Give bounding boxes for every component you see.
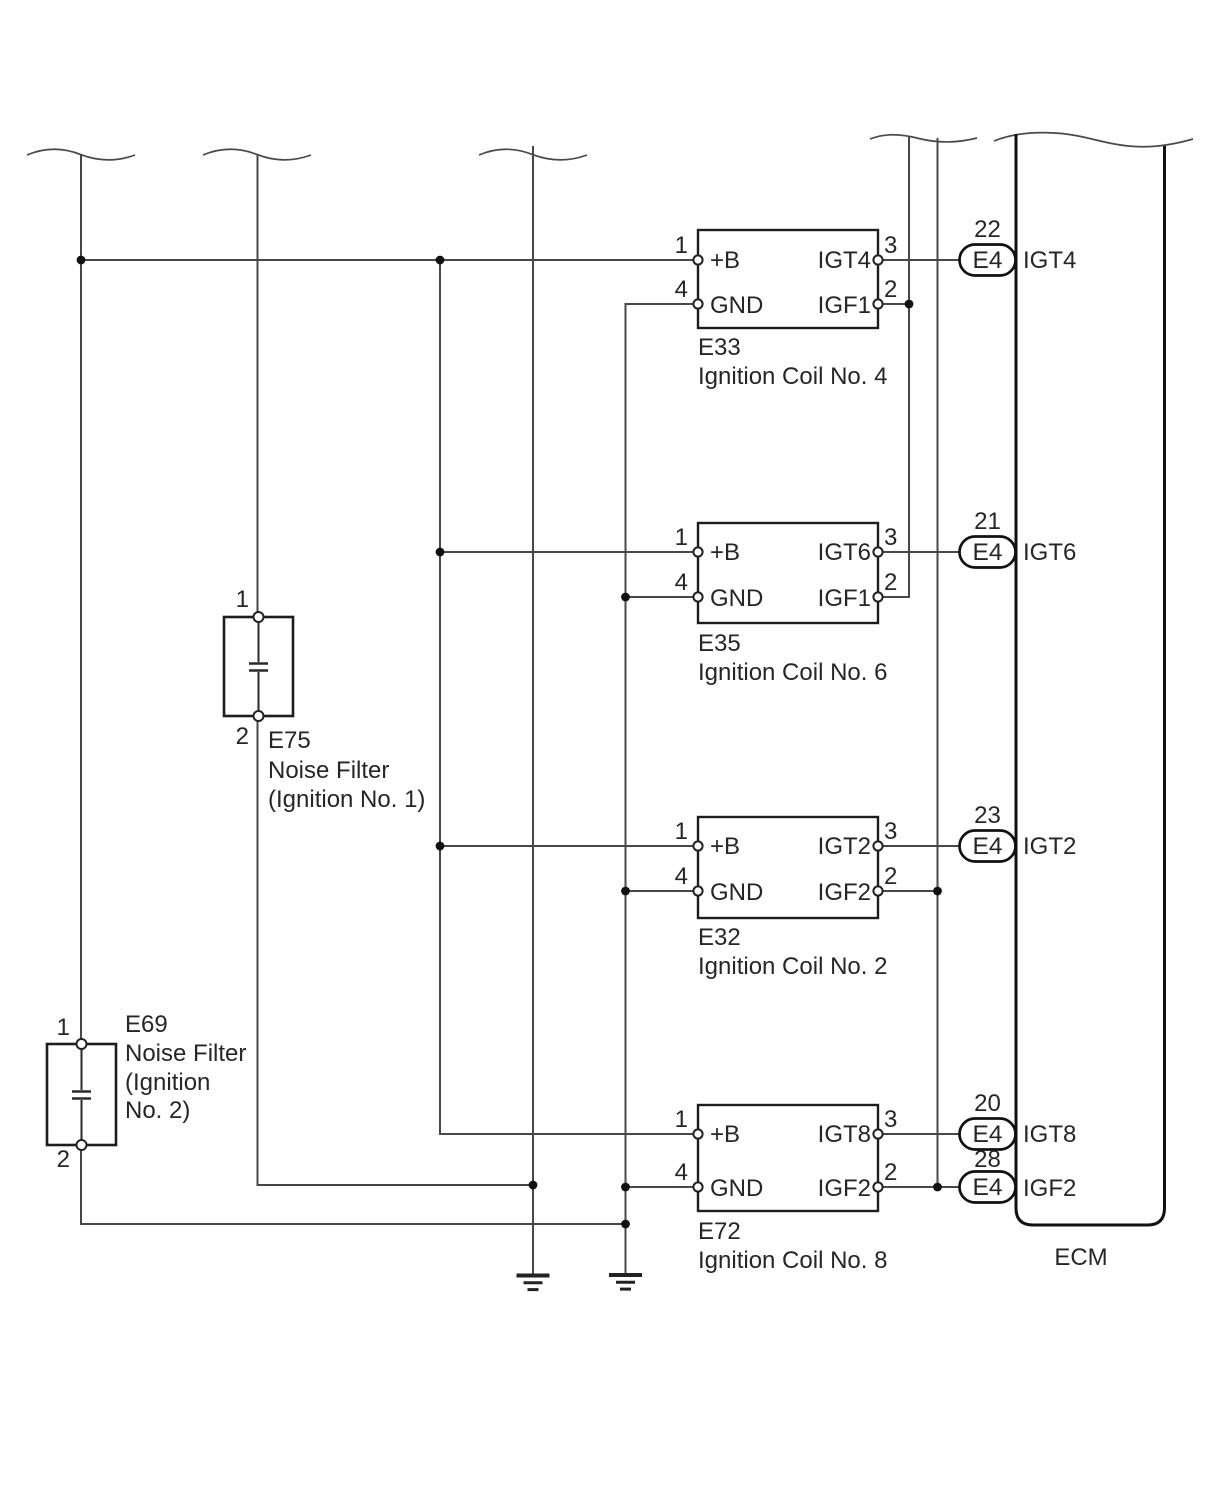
junction node: +B branch to E35: [436, 548, 445, 557]
pin circle E75 pin2: [254, 711, 264, 721]
ECM box outline: [1016, 134, 1165, 1225]
svg-text:4: 4: [675, 1159, 688, 1186]
svg-text:23: 23: [974, 802, 1001, 829]
svg-text:1: 1: [236, 586, 249, 613]
svg-text:3: 3: [884, 818, 897, 845]
pin circle E72 pin2: [873, 1182, 882, 1191]
wire: +B bus horizontal to E33 pin 1: [81, 259, 694, 261]
svg-text:Ignition Coil No. 4: Ignition Coil No. 4: [698, 363, 887, 390]
svg-text:IGT6: IGT6: [1023, 539, 1076, 566]
svg-text:GND: GND: [710, 585, 763, 612]
svg-text:E75: E75: [268, 727, 311, 754]
ground symbol G1: [517, 1276, 550, 1290]
svg-text:1: 1: [675, 818, 688, 845]
svg-text:+B: +B: [710, 539, 740, 566]
pin circle E32 pin2: [873, 886, 882, 895]
wire: E72 IGF2 pin 2 to connector E4-28: [882, 1186, 960, 1188]
svg-text:E32: E32: [698, 924, 741, 951]
svg-text:No. 2): No. 2): [125, 1097, 190, 1124]
ignition coil E72 box: [698, 1105, 878, 1211]
svg-text:E4: E4: [973, 1121, 1003, 1148]
wire: GND branch to E72 pin 4: [626, 1186, 695, 1188]
pin circle E69 pin2: [77, 1140, 87, 1150]
wire: +B branch to E35 pin 1: [440, 551, 694, 553]
svg-text:IGF2: IGF2: [818, 879, 871, 906]
pin circle E33 pin3: [873, 255, 882, 264]
junction node: IGF1 bus at E33: [905, 300, 914, 309]
pin circle E32 pin4: [693, 886, 702, 895]
svg-text:IGT8: IGT8: [1023, 1121, 1076, 1148]
junction node: +B bus left end: [77, 256, 86, 265]
svg-text:Ignition Coil No. 8: Ignition Coil No. 8: [698, 1247, 887, 1274]
wire: E33 IGT4 pin 3 to connector E4-22: [882, 259, 960, 261]
wire break squiggle over node B+ feed left: [27, 149, 135, 160]
svg-text:E69: E69: [125, 1011, 168, 1038]
wire: GND branch to E32 pin 4: [626, 890, 695, 892]
svg-text:GND: GND: [710, 1175, 763, 1202]
noise filter E69 box: [47, 1044, 116, 1145]
pin circle E32 pin1: [693, 841, 702, 850]
svg-text:Ignition Coil No. 2: Ignition Coil No. 2: [698, 953, 887, 980]
ground symbol G2: [609, 1275, 642, 1289]
svg-text:4: 4: [675, 276, 688, 303]
pin circle E72 pin3: [873, 1129, 882, 1138]
pin circle E35 pin4: [693, 592, 702, 601]
wire: E33 IGF1 pin 2 to IGF1 bus: [882, 303, 909, 305]
pin circle E35 pin3: [873, 547, 882, 556]
svg-text:IGT6: IGT6: [818, 539, 871, 566]
junction node: GND bus at E72 row: [621, 1183, 630, 1192]
svg-text:E4: E4: [973, 1174, 1003, 1201]
connector oval E4-28: [960, 1172, 1016, 1203]
wire: E32 IGF2 pin 2 to IGF2 bus: [882, 890, 938, 892]
wire break squiggle over ground wire: [479, 149, 587, 160]
svg-text:IGT4: IGT4: [818, 247, 871, 274]
wire: E72 IGT8 pin 3 to connector E4-20: [882, 1133, 960, 1135]
svg-text:E4: E4: [973, 247, 1003, 274]
wire: E35 IGT6 pin 3 to connector E4-21: [882, 551, 960, 553]
svg-text:28: 28: [974, 1146, 1001, 1173]
svg-text:IGT4: IGT4: [1023, 247, 1076, 274]
svg-text:IGF1: IGF1: [818, 585, 871, 612]
svg-text:E33: E33: [698, 334, 741, 361]
svg-text:3: 3: [884, 1106, 897, 1133]
pin circle E33 pin2: [873, 299, 882, 308]
svg-text:Ignition Coil No. 6: Ignition Coil No. 6: [698, 659, 887, 686]
capacitor inside E69: [72, 1049, 91, 1140]
capacitor inside E75: [249, 622, 268, 711]
wire: E69 pin 2 down and right to GND bus: [81, 1149, 626, 1224]
wire: E75 pin 2 down and right to ground wire: [258, 720, 534, 1185]
svg-text:3: 3: [884, 232, 897, 259]
svg-text:IGF2: IGF2: [1023, 1175, 1076, 1202]
svg-text:+B: +B: [710, 1121, 740, 1148]
junction node: E75 line on ground wire: [529, 1181, 538, 1190]
svg-text:Noise Filter: Noise Filter: [268, 757, 389, 784]
svg-text:20: 20: [974, 1090, 1001, 1117]
svg-text:IGF1: IGF1: [818, 292, 871, 319]
svg-text:GND: GND: [710, 879, 763, 906]
wire break squiggle over IGF1/IGF2 wires: [870, 135, 977, 142]
pin circle E35 pin2: [873, 592, 882, 601]
wire: IGF2 vertical bus (break to E72 IGF2 row): [937, 138, 939, 1187]
svg-text:2: 2: [57, 1146, 70, 1173]
wire: ground wire vertical (break to ground): [532, 146, 534, 1274]
svg-text:Noise Filter: Noise Filter: [125, 1040, 246, 1067]
junction node: +B branch to E32: [436, 842, 445, 851]
ignition coil E33 box: [698, 230, 878, 328]
wire break squiggle over ECM box top: [994, 133, 1193, 147]
svg-text:2: 2: [884, 1159, 897, 1186]
svg-text:GND: GND: [710, 292, 763, 319]
svg-text:IGT2: IGT2: [818, 833, 871, 860]
connector oval E4-22: [960, 245, 1016, 276]
pin circle E33 pin1: [693, 255, 702, 264]
ignition coil E35 box: [698, 523, 878, 623]
svg-text:2: 2: [884, 276, 897, 303]
wire: IGF1 vertical bus (break to E35 pin 2): [882, 136, 909, 597]
svg-text:2: 2: [884, 863, 897, 890]
connector oval E4-20: [960, 1119, 1016, 1150]
svg-text:3: 3: [884, 524, 897, 551]
wire: +B branch vertical to E72 pin 1: [440, 260, 694, 1134]
pin circle E72 pin4: [693, 1182, 702, 1191]
junction node: GND bus at E69 row: [621, 1220, 630, 1229]
svg-text:1: 1: [675, 524, 688, 551]
wire: GND bus from E33 pin 4 down to ground: [626, 304, 695, 1273]
junction node: GND bus at E32: [621, 887, 630, 896]
noise filter E75 box: [224, 617, 293, 716]
wire: E75 feed vertical (break to E75 pin 1): [257, 154, 259, 613]
svg-text:E4: E4: [973, 539, 1003, 566]
pin circle E69 pin1: [77, 1039, 87, 1049]
svg-text:21: 21: [974, 508, 1001, 535]
junction node: GND bus at E35: [621, 593, 630, 602]
pin circle E33 pin4: [693, 299, 702, 308]
connector oval E4-21: [960, 537, 1016, 568]
svg-text:1: 1: [57, 1014, 70, 1041]
junction node: +B branch on bus: [436, 256, 445, 265]
svg-text:E4: E4: [973, 833, 1003, 860]
wire: left vertical +B supply (to E69 pin 1): [80, 154, 82, 1040]
svg-text:2: 2: [884, 569, 897, 596]
connector oval E4-23: [960, 831, 1016, 862]
svg-text:2: 2: [236, 723, 249, 750]
svg-text:IGT2: IGT2: [1023, 833, 1076, 860]
ignition coil E32 box: [698, 817, 878, 918]
svg-text:E72: E72: [698, 1218, 741, 1245]
pin circle E72 pin1: [693, 1129, 702, 1138]
wire: GND branch to E35 pin 4: [626, 596, 695, 598]
svg-text:1: 1: [675, 1106, 688, 1133]
junction node: IGF2 bus at E72: [933, 1183, 942, 1192]
svg-text:4: 4: [675, 863, 688, 890]
svg-text:+B: +B: [710, 247, 740, 274]
pin circle E32 pin3: [873, 841, 882, 850]
svg-text:ECM: ECM: [1054, 1244, 1107, 1271]
svg-text:(Ignition: (Ignition: [125, 1069, 210, 1096]
pin circle E75 pin1: [254, 612, 264, 622]
wire: E32 IGT2 pin 3 to connector E4-23: [882, 845, 960, 847]
pin circle E35 pin1: [693, 547, 702, 556]
svg-text:E35: E35: [698, 630, 741, 657]
svg-text:1: 1: [675, 232, 688, 259]
svg-text:4: 4: [675, 569, 688, 596]
svg-text:IGT8: IGT8: [818, 1121, 871, 1148]
junction node: IGF2 bus at E32: [933, 887, 942, 896]
svg-text:22: 22: [974, 216, 1001, 243]
svg-text:+B: +B: [710, 833, 740, 860]
wire: +B branch to E32 pin 1: [440, 845, 694, 847]
svg-text:IGF2: IGF2: [818, 1175, 871, 1202]
wire break squiggle over E75 feed: [203, 149, 311, 160]
svg-text:(Ignition No. 1): (Ignition No. 1): [268, 786, 425, 813]
